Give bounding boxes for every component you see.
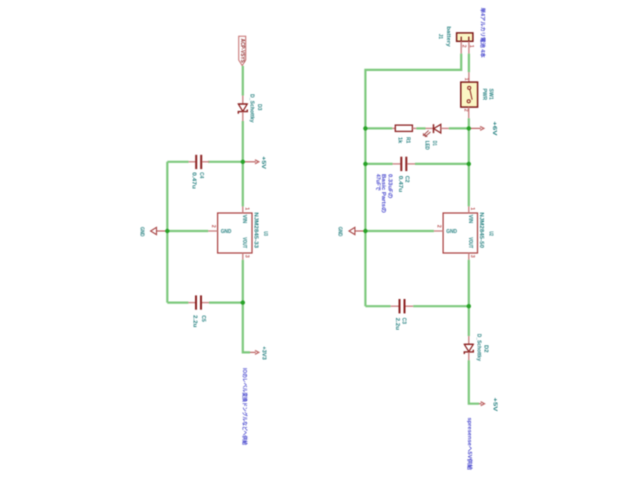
- svg-text:1: 1: [463, 78, 469, 81]
- svg-text:PWR: PWR: [481, 89, 487, 101]
- wire C3 to right rail: [413, 305, 469, 307]
- svg-text:spresenseへ5V供給: spresenseへ5V供給: [466, 418, 474, 471]
- wire U3 pin3 down: [242, 260, 244, 303]
- svg-text:IOのレベル変換ドングルなどへ供給: IOのレベル変換ドングルなどへ供給: [241, 368, 249, 446]
- capacitor C5: [167, 295, 243, 327]
- svg-text:+5V: +5V: [260, 156, 266, 169]
- svg-text:J1: J1: [437, 34, 443, 39]
- wire left rail to R1: [365, 127, 392, 129]
- svg-text:U3: U3: [262, 231, 268, 236]
- diode D2 D_Schottky: [464, 334, 488, 361]
- svg-text:3: 3: [469, 255, 475, 258]
- wire node A to U3 pin1: [242, 162, 244, 207]
- net flag ACP-VSYS: [239, 36, 246, 65]
- svg-text:2: 2: [463, 109, 469, 112]
- svg-text:VIN: VIN: [467, 215, 473, 224]
- svg-text:1: 1: [243, 207, 249, 210]
- svg-text:2.2u: 2.2u: [192, 315, 198, 327]
- svg-text:GND: GND: [139, 227, 145, 237]
- power +5V (right): [479, 398, 497, 412]
- svg-text:+6V: +6V: [491, 121, 497, 136]
- diode D3 D_Schottky: [238, 94, 262, 123]
- wire U2 pin3 down: [468, 260, 470, 306]
- svg-text:NJM2845-50: NJM2845-50: [478, 212, 484, 248]
- power +6V: [469, 121, 497, 136]
- wire D1 to node B: [449, 127, 469, 129]
- svg-text:C4: C4: [198, 172, 204, 178]
- svg-text:VOUT: VOUT: [467, 237, 473, 249]
- svg-text:D2: D2: [482, 345, 488, 353]
- wire GND to U2 pin2: [365, 230, 434, 232]
- wire left rail (left circuit): [166, 162, 168, 303]
- resistor R1: [392, 125, 416, 143]
- wire GND to U3 pin2: [167, 230, 208, 232]
- power +3V3: [250, 346, 267, 360]
- note (blue) C2 remark: [374, 174, 393, 213]
- ground (left circuit): [139, 227, 168, 237]
- svg-text:C5: C5: [200, 315, 206, 322]
- connector J1 battery: [437, 26, 474, 53]
- svg-text:C3: C3: [400, 318, 406, 324]
- wire SW1 to node B: [468, 118, 470, 128]
- wire to +3V3 corner: [243, 303, 250, 353]
- LED D1: [423, 124, 449, 150]
- svg-text:2.2u: 2.2u: [394, 318, 400, 330]
- wire node A to C4: [208, 161, 241, 163]
- svg-text:D3: D3: [256, 104, 262, 110]
- wire left rail to C3: [365, 305, 390, 307]
- svg-text:47uFで: 47uFで: [374, 174, 381, 191]
- wire J1 pin2 to left rail: [365, 54, 461, 307]
- capacitor C4: [167, 155, 209, 189]
- svg-text:GND: GND: [446, 229, 457, 235]
- svg-text:NJM2845-33: NJM2845-33: [253, 212, 259, 248]
- ground (right circuit): [336, 227, 365, 237]
- svg-text:VIN: VIN: [241, 215, 247, 224]
- svg-text:SW1: SW1: [488, 89, 494, 100]
- svg-text:U2: U2: [488, 231, 494, 236]
- svg-text:+5V: +5V: [491, 398, 497, 412]
- svg-text:R1: R1: [404, 137, 410, 143]
- svg-text:GND: GND: [336, 227, 342, 237]
- svg-text:1: 1: [469, 207, 475, 210]
- wire C2 to right rail: [415, 163, 469, 165]
- svg-text:2: 2: [461, 45, 467, 48]
- svg-text:0.33uFの: 0.33uFの: [386, 174, 393, 199]
- svg-text:0.47u: 0.47u: [191, 172, 197, 189]
- capacitor C3: [391, 299, 414, 330]
- switch SW1 PWR: [461, 72, 494, 118]
- svg-text:0.47u: 0.47u: [397, 176, 403, 193]
- svg-text:2: 2: [210, 225, 216, 228]
- svg-text:単4アルカリ電池 4本: 単4アルカリ電池 4本: [479, 8, 487, 59]
- svg-text:VOUT: VOUT: [241, 237, 247, 249]
- svg-text:LED: LED: [423, 141, 429, 150]
- wire junction to D2: [468, 306, 470, 336]
- capacitor C2: [393, 157, 415, 193]
- regulator U3 NJM2845-33: [208, 206, 268, 259]
- svg-text:+3V3: +3V3: [261, 346, 267, 360]
- power +5V (left): [243, 156, 266, 169]
- wire node B to U2 pin1: [468, 128, 470, 206]
- svg-text:2: 2: [435, 225, 441, 228]
- svg-text:battery: battery: [445, 26, 451, 46]
- wire left rail to C2: [365, 163, 392, 165]
- wire D3 to node A: [242, 121, 244, 162]
- svg-text:D1: D1: [431, 141, 437, 146]
- svg-text:ACP-VSYS: ACP-VSYS: [239, 39, 245, 63]
- wire D2 to +5V corner: [469, 360, 479, 403]
- svg-text:1: 1: [468, 45, 474, 48]
- svg-text:D_Schottky: D_Schottky: [475, 334, 481, 361]
- svg-text:1k: 1k: [396, 137, 402, 143]
- svg-text:GND: GND: [221, 229, 232, 235]
- svg-text:C2: C2: [403, 176, 409, 183]
- svg-text:D_Schottky: D_Schottky: [248, 94, 254, 123]
- regulator U2 NJM2845-50: [434, 206, 494, 259]
- wire R1 to D1: [416, 127, 425, 129]
- junction dots (all wire junctions): [165, 126, 471, 308]
- wire J1 pin1 to SW1: [468, 54, 470, 73]
- wire flag to D3: [242, 66, 244, 96]
- svg-text:3: 3: [244, 255, 250, 258]
